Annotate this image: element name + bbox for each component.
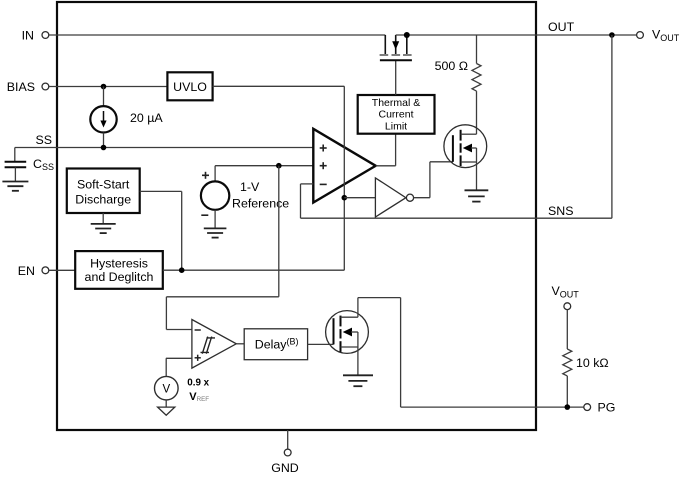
svg-text:Thermal &: Thermal &	[372, 97, 420, 109]
capacitor CSS	[5, 162, 27, 182]
wire op-amp feedback from SNS	[301, 184, 612, 218]
svg-text:VOUT: VOUT	[552, 284, 580, 300]
node SS junction	[101, 145, 107, 151]
wire buffer output to SNS FET gate	[414, 162, 453, 198]
block Hysteresis and Deglitch	[75, 251, 163, 289]
buffer A1 gate driver	[344, 178, 413, 217]
pin PG terminal	[584, 401, 616, 415]
IC outer boundary box	[57, 2, 536, 430]
svg-text:GND: GND	[271, 461, 299, 475]
svg-text:10 kΩ: 10 kΩ	[576, 356, 609, 370]
wire thermal block to pass gate	[395, 61, 397, 95]
ground CSS	[2, 182, 28, 191]
transistor Q2 SNS NMOS	[444, 125, 487, 191]
wire comparator to delay	[236, 343, 244, 345]
wire soft-start to ground	[102, 213, 104, 224]
node buffer input junction	[342, 195, 348, 201]
wire op-amp output to thermal block	[376, 134, 396, 166]
node PG junction	[565, 404, 571, 410]
wire UVLO net vertical	[343, 86, 345, 270]
svg-text:20 µA: 20 µA	[130, 111, 163, 125]
svg-text:UVLO: UVLO	[173, 80, 207, 94]
wire PG FET drain to PG line	[358, 298, 584, 408]
pin VOUT terminal	[637, 28, 680, 44]
pin BIAS terminal	[7, 80, 49, 94]
svg-text:VOUT: VOUT	[652, 28, 680, 44]
svg-text:0.9 x: 0.9 x	[187, 377, 209, 388]
voltage source 0.9 VREF	[155, 358, 179, 415]
wire IN rail	[49, 34, 386, 36]
pin IN terminal	[22, 29, 49, 43]
label 1-V Reference	[232, 180, 289, 211]
block Soft-Start Discharge	[67, 169, 140, 214]
wire ref junction to comparator minus	[166, 166, 278, 330]
svg-text:Reference: Reference	[232, 197, 289, 211]
wire comparator plus input	[166, 357, 192, 359]
svg-text:SNS: SNS	[548, 204, 573, 218]
block Delay	[244, 329, 307, 360]
node pass drain junction	[404, 32, 410, 38]
node BIAS junction	[101, 84, 107, 90]
transistor Q3 PG NMOS	[326, 311, 369, 376]
resistor R2 10k	[563, 349, 572, 407]
op-amp U1 error amplifier	[313, 129, 375, 203]
svg-text:CSS: CSS	[33, 157, 54, 172]
wire UVLO output net	[213, 85, 345, 87]
wire EN to block	[49, 269, 75, 271]
ground 1-V reference	[204, 228, 227, 237]
svg-text:EN: EN	[18, 264, 35, 278]
resistor R1 500 ohm	[472, 35, 481, 134]
comparator U2 power-good	[192, 320, 236, 369]
wire soft-start output	[140, 191, 182, 270]
svg-text:V: V	[162, 384, 170, 396]
node EN net junction	[179, 267, 185, 273]
label 0.9 x VREF	[187, 377, 209, 403]
ground PG FET	[343, 375, 373, 386]
voltage source 1-V reference	[201, 166, 229, 229]
transistor Q1 pass PMOS	[380, 35, 412, 60]
pin EN terminal	[18, 264, 49, 278]
pin VOUT pull-up terminal	[552, 284, 580, 349]
svg-text:Current: Current	[378, 109, 413, 121]
svg-text:OUT: OUT	[548, 20, 575, 34]
wire hysteresis output	[163, 269, 344, 271]
svg-text:Discharge: Discharge	[75, 193, 131, 207]
wire SS rail	[15, 148, 314, 162]
svg-text:BIAS: BIAS	[7, 80, 35, 94]
svg-text:Limit: Limit	[385, 120, 407, 132]
svg-text:IN: IN	[22, 29, 34, 43]
wire delay to PG FET gate	[308, 343, 334, 345]
wire 1-V ref to op-amp	[215, 165, 313, 167]
svg-text:Hysteresis: Hysteresis	[90, 256, 148, 270]
wire OUT to SNS	[611, 35, 613, 218]
svg-text:SS: SS	[35, 133, 52, 147]
svg-text:500 Ω: 500 Ω	[435, 59, 468, 73]
svg-text:PG: PG	[598, 401, 616, 415]
node ref junction	[276, 163, 282, 169]
ground soft-start	[91, 224, 116, 233]
block UVLO	[167, 72, 212, 100]
ground SNS FET	[465, 190, 489, 201]
current source I1 20uA	[90, 87, 116, 148]
wire BIAS to UVLO	[49, 86, 168, 88]
svg-text:Soft-Start: Soft-Start	[77, 178, 130, 192]
pin GND terminal	[271, 430, 299, 475]
svg-text:VREF: VREF	[189, 391, 209, 403]
svg-text:and Deglitch: and Deglitch	[85, 270, 154, 284]
node OUT junction	[609, 32, 615, 38]
wire OUT rail	[396, 34, 637, 36]
svg-text:1-V: 1-V	[240, 180, 260, 194]
block Thermal & Current Limit	[358, 95, 435, 134]
